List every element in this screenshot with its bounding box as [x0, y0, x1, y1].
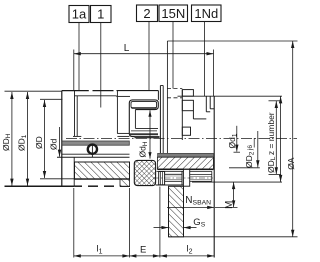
- dimension ODL: [269, 101, 281, 175]
- claw tooth hatch lower: [120, 179, 130, 186]
- bottom extension lines: [74, 187, 160, 258]
- left claw slot root: [116, 91, 118, 97]
- svg-text:ØA: ØA: [286, 157, 296, 170]
- N / M line: [167, 206, 238, 209]
- GS arrows: [154, 226, 197, 229]
- callout box 1Nd: [192, 5, 222, 22]
- svg-text:1Nd: 1Nd: [194, 6, 218, 21]
- flange face verticals: [159, 86, 161, 154]
- set screw circle: [88, 145, 97, 154]
- callout box 2: [137, 5, 158, 22]
- svg-text:M: M: [224, 201, 235, 209]
- top height extension line: [167, 40, 297, 42]
- claw recess lines: [117, 132, 129, 134]
- svg-text:E: E: [140, 245, 146, 256]
- label ODH: [1, 133, 12, 151]
- spider upper arm inner: [131, 102, 157, 108]
- centerline: [66, 137, 297, 139]
- label ODL z = number: [266, 112, 277, 173]
- dimension L: [74, 50, 214, 97]
- hub inner top line: [75, 96, 118, 134]
- svg-text:1: 1: [97, 7, 104, 22]
- hub lower face line: [73, 157, 75, 186]
- flange top edge: [178, 95, 283, 97]
- label Od1: [227, 133, 238, 148]
- hub left edge: [61, 91, 63, 187]
- leader 2: [148, 22, 150, 92]
- dimension E: [129, 254, 160, 257]
- bore bottom line: [57, 156, 130, 158]
- hub left face line: [74, 91, 76, 137]
- thread into flange: [190, 174, 212, 176]
- label OdH: [138, 141, 149, 157]
- OD bottom extension: [40, 178, 75, 180]
- svg-text:15N: 15N: [161, 6, 185, 21]
- bore hole top line: [157, 170, 184, 172]
- OD top extension: [40, 98, 63, 100]
- flange bottom edge: [192, 181, 282, 183]
- lower hub block hatched: [169, 186, 184, 237]
- label M: [224, 201, 235, 209]
- svg-text:ØD: ØD: [34, 136, 44, 149]
- callout box 1: [91, 6, 112, 23]
- dimension M: [232, 182, 235, 207]
- svg-text:ØDLz = number: ØDLz = number: [266, 112, 277, 173]
- label OD: [34, 136, 44, 149]
- left bottom extension line: [5, 185, 75, 187]
- clamp screw shank: [165, 173, 182, 175]
- spider upper arm outer: [129, 100, 158, 137]
- screw axis: [153, 177, 213, 179]
- spider lower crosshatched block: [134, 160, 155, 185]
- leader 1Nd: [204, 22, 206, 97]
- label OD2 j6: [244, 138, 255, 168]
- svg-text:2: 2: [143, 6, 150, 21]
- clamp screw head: [159, 172, 165, 185]
- dimension l2: [160, 254, 214, 257]
- spider lower thick line: [135, 136, 160, 138]
- label OD1: [17, 134, 28, 151]
- hub top edge: [62, 90, 89, 92]
- callout box 15N: [159, 5, 188, 22]
- leader 1a: [78, 23, 80, 91]
- right gray band: [158, 153, 214, 157]
- step bottom: [73, 135, 81, 137]
- thick line under hatch strip: [157, 168, 183, 170]
- flange rear face: [213, 96, 215, 257]
- label OA: [286, 157, 296, 170]
- claw band line: [74, 178, 130, 180]
- dimension l1: [74, 254, 130, 257]
- claw right end: [157, 91, 159, 100]
- left hub hatched section: [75, 162, 130, 179]
- dimension Od1: [234, 126, 241, 152]
- dimension line ODH: [10, 92, 13, 186]
- right claw tooth edges: [182, 90, 214, 140]
- callout box 1a: [69, 6, 89, 23]
- dimension OdH line: [148, 110, 151, 158]
- label Od: [48, 138, 58, 150]
- spider lower arm: [135, 127, 158, 129]
- hidden lines right claw: [167, 88, 182, 90]
- svg-text:Ød: Ød: [48, 138, 58, 150]
- hub step line: [76, 96, 78, 137]
- bore line: [62, 153, 130, 155]
- svg-text:1a: 1a: [72, 7, 87, 22]
- right hub upper hatch strip: [157, 157, 213, 169]
- left top extension line: [5, 90, 62, 92]
- flange face rim cap: [160, 85, 163, 87]
- svg-text:L: L: [124, 43, 130, 54]
- spider spine inner: [134, 110, 136, 129]
- dimension line OD1: [26, 92, 29, 186]
- dimension line OD: [43, 100, 46, 178]
- bottom height extension line: [169, 236, 298, 238]
- overall height dimension line: [291, 41, 294, 237]
- dimension OD2 j6: [229, 131, 260, 168]
- leader 15N: [172, 22, 174, 89]
- keyway band: [62, 141, 129, 145]
- leader 1: [100, 23, 102, 108]
- clamp bushing: [183, 169, 189, 186]
- dimension OA: [279, 96, 282, 181]
- dimension line Od: [58, 127, 61, 157]
- bore hole bottom line: [156, 184, 184, 186]
